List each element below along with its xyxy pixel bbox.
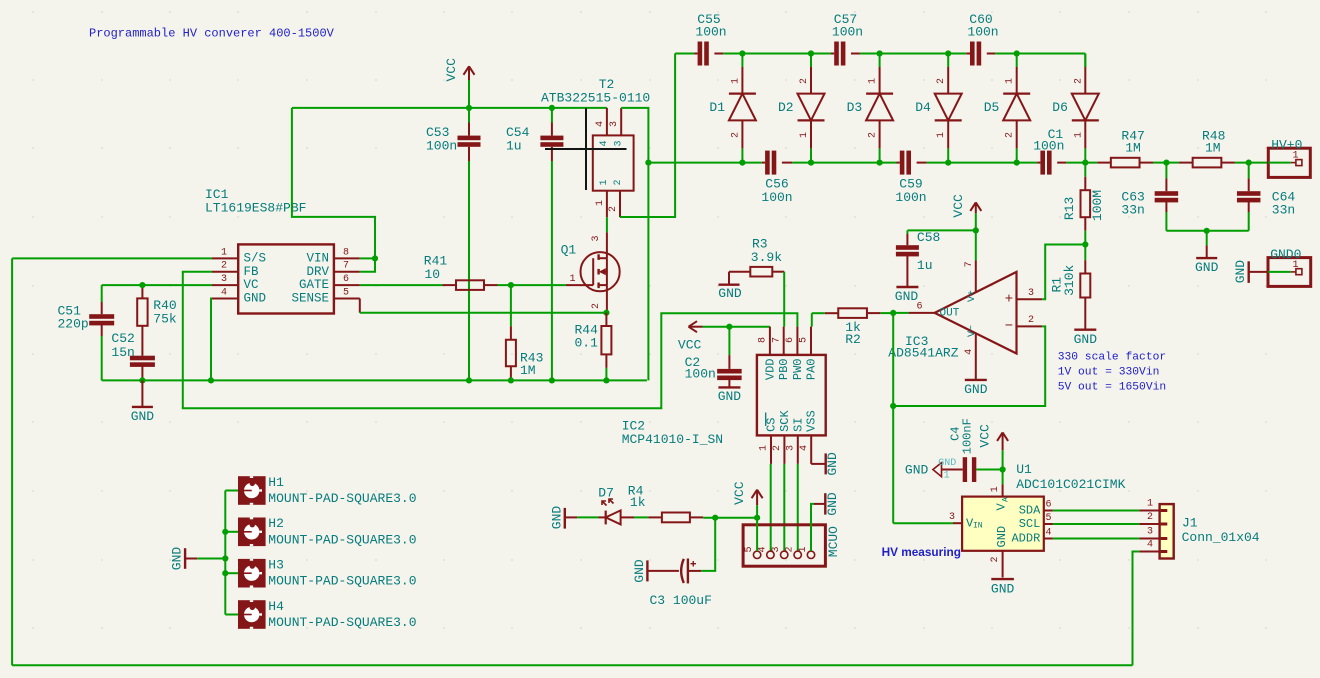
svg-text:3: 3 <box>613 140 624 146</box>
wire bottom rail <box>12 664 1132 666</box>
power VCC at U1 <box>1002 432 1004 450</box>
wire to H2 <box>225 531 238 533</box>
junction VCC R4 <box>754 515 760 521</box>
svg-text:2: 2 <box>1028 315 1034 326</box>
svg-text:2: 2 <box>785 546 796 552</box>
wire HV top rail segments <box>675 53 694 55</box>
ic IC2 bottom pins 1 2 3 4 <box>770 435 772 464</box>
resistor R48 1M <box>1179 162 1193 164</box>
wire R2 to IC2 PA0 <box>811 313 813 326</box>
junction D1 bottom <box>739 160 745 166</box>
svg-text:V: V <box>995 503 1009 511</box>
svg-text:1V out = 330Vin: 1V out = 330Vin <box>1058 366 1160 378</box>
svg-text:ATB322515-0110: ATB322515-0110 <box>541 91 650 106</box>
wire left vertical rail down <box>11 258 13 665</box>
svg-text:Programmable HV converer 400-1: Programmable HV converer 400-1500V <box>89 27 335 41</box>
svg-text:1: 1 <box>944 470 950 481</box>
capacitor C59 100n <box>897 162 900 164</box>
svg-text:4: 4 <box>757 546 768 552</box>
svg-text:2: 2 <box>730 132 741 138</box>
ground at D7 <box>564 508 566 529</box>
capacitor C4 100nF <box>976 469 1002 471</box>
global label GND at C4 <box>933 463 942 477</box>
transformer T2 pin 3 <box>620 108 622 135</box>
svg-text:1M: 1M <box>1205 141 1221 156</box>
ic IC2 CS overline <box>765 413 767 427</box>
svg-text:3: 3 <box>786 445 797 451</box>
svg-text:VIN: VIN <box>306 251 329 265</box>
capacitor C60 100n <box>966 53 970 55</box>
svg-text:3: 3 <box>949 512 955 523</box>
op-amp IC3 AD8541ARZ body <box>935 272 1017 354</box>
wire VIN from op-amp output <box>893 522 953 524</box>
power VCC op-amp <box>975 202 977 213</box>
power VCC at MCUO pin 5 <box>756 490 758 506</box>
capacitor C55 100n <box>695 53 698 55</box>
svg-text:2: 2 <box>608 206 619 212</box>
svg-text:GND: GND <box>718 389 742 404</box>
svg-text:U1: U1 <box>1016 462 1032 477</box>
svg-text:H2: H2 <box>268 516 284 531</box>
svg-text:Conn_01x04: Conn_01x04 <box>1182 530 1260 545</box>
resistor R44 0.1 <box>605 313 607 326</box>
svg-text:H3: H3 <box>268 558 284 573</box>
svg-text:GND: GND <box>825 452 840 476</box>
svg-text:4: 4 <box>799 445 810 451</box>
ground at GND0 <box>1250 271 1269 273</box>
wire HV mid rail segments <box>648 162 762 164</box>
junction VC node <box>139 282 145 288</box>
svg-text:100n: 100n <box>761 190 792 205</box>
diode D1 <box>741 54 743 68</box>
svg-text:HV measuring: HV measuring <box>882 545 961 559</box>
svg-text:GATE: GATE <box>299 278 329 292</box>
svg-text:MOUNT-PAD-SQUARE3.0: MOUNT-PAD-SQUARE3.0 <box>268 615 416 630</box>
svg-text:100n: 100n <box>1033 139 1064 154</box>
svg-text:100n: 100n <box>967 25 998 40</box>
ground below C2 <box>718 386 740 388</box>
mount pad H4 <box>238 600 266 629</box>
svg-text:GND0: GND0 <box>1270 247 1301 262</box>
svg-text:1: 1 <box>798 546 809 552</box>
svg-text:1: 1 <box>221 247 227 258</box>
capacitor C56 100n <box>762 162 765 164</box>
svg-text:−: − <box>1005 319 1013 335</box>
svg-text:CS: CS <box>765 417 779 431</box>
wire T2 pin3 to HV rail and common <box>621 108 648 381</box>
diode D2 <box>810 54 812 68</box>
junction R44 to common rail <box>603 377 609 383</box>
svg-text:3: 3 <box>591 235 602 241</box>
connector GND0 port <box>1268 258 1311 287</box>
wire C63 C64 ground link <box>1166 230 1248 232</box>
svg-text:6: 6 <box>343 274 349 285</box>
wire up to J1 pin4 <box>1133 552 1140 666</box>
svg-text:VCC: VCC <box>444 58 459 82</box>
op-amp IC3 inverting pin 2 <box>1017 325 1043 327</box>
svg-text:4: 4 <box>1045 527 1051 538</box>
resistor R1 310k <box>1084 245 1086 261</box>
junction IC1 GND to common rail <box>208 377 214 383</box>
connector J1 pins 1-4 <box>1139 510 1159 512</box>
diode D3 <box>879 54 881 68</box>
svg-text:SENSE: SENSE <box>291 292 329 306</box>
svg-text:2: 2 <box>772 445 783 451</box>
svg-text:3.9k: 3.9k <box>751 250 782 265</box>
svg-text:SI: SI <box>791 417 805 431</box>
ic IC1 LT1619ES8#PBF body <box>238 244 334 313</box>
svg-text:HV+0: HV+0 <box>1271 138 1302 153</box>
junction D3 bottom <box>877 160 883 166</box>
svg-text:4: 4 <box>221 287 227 298</box>
capacitor C2 100n <box>728 327 730 355</box>
junction D2 top <box>808 50 814 56</box>
ground below U1 <box>991 578 1014 580</box>
svg-text:D1: D1 <box>709 100 725 115</box>
wire VIN DRV to VCC <box>360 257 375 259</box>
svg-text:MCUO: MCUO <box>826 526 841 557</box>
ground at MCUO pin1 <box>814 503 825 505</box>
svg-text:GND: GND <box>905 462 929 477</box>
svg-text:C52: C52 <box>111 331 134 346</box>
ic U1 pin 1 VA <box>1002 485 1004 497</box>
wire D7 to R4 <box>634 516 648 518</box>
svg-text:MCP41010-I_SN: MCP41010-I_SN <box>622 432 723 447</box>
svg-text:C58: C58 <box>917 230 940 245</box>
svg-text:100nF: 100nF <box>960 418 974 454</box>
svg-text:5: 5 <box>799 337 810 343</box>
wire R47 to C63 <box>1153 162 1166 164</box>
resistor R47 1M <box>1097 162 1111 164</box>
svg-text:1: 1 <box>599 179 610 185</box>
svg-text:0.1: 0.1 <box>575 335 599 350</box>
ic IC2 MCP41010 body <box>757 355 826 436</box>
svg-text:GND: GND <box>244 292 267 306</box>
wire VC pin3 <box>102 284 212 286</box>
svg-text:2: 2 <box>936 78 947 84</box>
junction C64 node <box>1246 160 1252 166</box>
junction T2 pin3 at HV rail <box>645 160 651 166</box>
wire H pads bus <box>224 491 226 615</box>
resistor R4 1k <box>648 516 662 518</box>
svg-text:2: 2 <box>221 261 227 272</box>
svg-text:100n: 100n <box>685 367 716 382</box>
svg-text:R40: R40 <box>153 298 176 313</box>
svg-text:J1: J1 <box>1182 515 1198 530</box>
wire output down to measure <box>892 313 894 523</box>
resistor R43 1M <box>510 285 512 326</box>
wire C3 branch down <box>701 518 715 571</box>
svg-text:VSS: VSS <box>805 410 819 432</box>
svg-text:1: 1 <box>759 445 770 451</box>
svg-text:GND: GND <box>1074 332 1098 347</box>
junction D3 top <box>877 50 883 56</box>
svg-text:IN: IN <box>973 522 983 531</box>
wire T2 pin1 to Q1 drain <box>606 217 608 232</box>
connector HV+0 port <box>1268 148 1310 177</box>
resistor R3 3.9k <box>729 271 750 273</box>
svg-text:2: 2 <box>868 132 879 138</box>
svg-text:5: 5 <box>744 546 755 552</box>
junction C3 branch <box>712 515 718 521</box>
wire IC1 GND pin4 down <box>211 299 212 381</box>
svg-text:4: 4 <box>964 349 975 355</box>
wire output node <box>893 312 908 314</box>
svg-text:330 scale factor: 330 scale factor <box>1058 351 1166 363</box>
ic U1 right pins SDA SCL ADDR <box>1044 510 1053 512</box>
svg-text:33n: 33n <box>1272 203 1295 218</box>
svg-text:100n: 100n <box>832 25 863 40</box>
ic U1 ADC101C021CIMK body <box>962 497 1044 551</box>
svg-text:8: 8 <box>343 247 349 258</box>
svg-text:R13: R13 <box>1062 197 1077 220</box>
power VCC arrow left at C2 <box>689 326 703 328</box>
svg-text:2: 2 <box>799 78 810 84</box>
wire GND to D7 <box>577 516 598 518</box>
svg-text:MOUNT-PAD-SQUARE3.0: MOUNT-PAD-SQUARE3.0 <box>268 532 416 547</box>
svg-text:3: 3 <box>1147 526 1153 537</box>
svg-text:8: 8 <box>758 337 769 343</box>
wire SENSE pin5 to Q1 source <box>359 299 361 313</box>
svg-text:S/S: S/S <box>244 251 267 265</box>
wire SDA to J1 <box>1053 510 1140 512</box>
transistor Q1 source pin 2 <box>606 285 608 313</box>
ground below C58 <box>896 286 918 288</box>
wire to H3 <box>225 572 238 574</box>
svg-text:GND: GND <box>549 506 564 530</box>
junction ground link <box>1204 228 1210 234</box>
svg-text:10: 10 <box>425 267 441 282</box>
svg-text:100n: 100n <box>695 25 726 40</box>
resistor R2 1k <box>812 312 825 314</box>
svg-text:4: 4 <box>599 140 610 146</box>
ic IC1 right pins 8-5 VIN DRV GATE SENSE <box>334 257 360 259</box>
svg-text:1: 1 <box>868 78 879 84</box>
svg-text:C3 100uF: C3 100uF <box>650 593 712 608</box>
svg-text:1: 1 <box>1005 78 1016 84</box>
svg-text:R2: R2 <box>845 332 861 347</box>
svg-text:GND: GND <box>938 458 956 469</box>
wire R48 to HV+0 <box>1235 162 1268 164</box>
svg-text:1u: 1u <box>917 258 933 273</box>
svg-text:GND: GND <box>964 382 988 397</box>
capacitor C54 1u <box>551 108 553 123</box>
junction D6 R13 node <box>1082 160 1088 166</box>
svg-text:D2: D2 <box>778 100 794 115</box>
wire VCC horizontal rail <box>292 107 607 109</box>
svg-text:3: 3 <box>1028 288 1034 299</box>
capacitor C63 33n <box>1165 163 1167 179</box>
resistor R13 100M <box>1084 163 1086 177</box>
svg-text:1: 1 <box>595 200 606 206</box>
svg-text:1: 1 <box>1073 132 1084 138</box>
connector J1 Conn_01x04 body <box>1160 504 1174 558</box>
junction C2 <box>726 324 732 330</box>
junction C63 node <box>1163 160 1169 166</box>
svg-text:H1: H1 <box>268 475 284 490</box>
wire to H4 <box>225 614 238 616</box>
svg-text:H4: H4 <box>268 599 284 614</box>
svg-text:3: 3 <box>221 274 227 285</box>
svg-text:DRV: DRV <box>306 265 329 279</box>
svg-text:MOUNT-PAD-SQUARE3.0: MOUNT-PAD-SQUARE3.0 <box>268 574 416 589</box>
wire MCUO pin1 to ground <box>811 504 814 551</box>
svg-text:1k: 1k <box>630 495 646 510</box>
svg-text:SCL: SCL <box>1019 517 1041 531</box>
transformer T2 ATB322515-0110 body <box>593 135 634 190</box>
wire ADDR to J1 <box>1053 538 1140 540</box>
junction D4 bottom <box>945 160 951 166</box>
svg-text:GND: GND <box>825 492 840 516</box>
svg-text:5: 5 <box>343 287 349 298</box>
mount pad H1 <box>238 476 266 505</box>
junction R41 R43 <box>508 282 514 288</box>
transformer T2 pin 2 <box>619 191 621 218</box>
svg-text:4: 4 <box>595 121 606 127</box>
capacitor C58 1u <box>906 230 908 234</box>
connector MCUO pins 5-1 <box>753 551 760 558</box>
capacitor C57 100n <box>831 53 834 55</box>
ic IC2 top pins 8 7 6 5 <box>769 327 771 355</box>
ic U1 pin 3 VIN <box>953 522 962 524</box>
svg-text:1: 1 <box>936 132 947 138</box>
svg-text:1: 1 <box>569 274 575 285</box>
diode D7 LED <box>599 516 606 518</box>
junction C52 to common rail <box>139 377 145 383</box>
wire R3 to IC2 PB0 <box>783 272 785 327</box>
svg-text:100n: 100n <box>426 139 457 154</box>
svg-text:100M: 100M <box>1090 190 1105 221</box>
junction op-amp output <box>890 310 896 316</box>
wire VCC to IC2 VDD <box>703 326 770 328</box>
junction VIN pin8 <box>372 255 378 261</box>
capacitor C51 220p <box>101 285 103 302</box>
connector MCUO body <box>743 525 825 566</box>
svg-text:D4: D4 <box>915 100 931 115</box>
ic IC1 left pins 1-4 S/S FB VC GND <box>212 257 238 259</box>
svg-text:D7: D7 <box>598 485 614 500</box>
junction C54 to common rail <box>549 377 555 383</box>
svg-text:AD8541ARZ: AD8541ARZ <box>888 345 958 360</box>
svg-text:3: 3 <box>609 121 620 127</box>
op-amp IC3 V+ pin 7 <box>975 261 977 292</box>
svg-text:1: 1 <box>799 132 810 138</box>
diode D6 <box>1084 54 1086 68</box>
op-amp IC3 V- pin 4 <box>975 334 977 380</box>
svg-text:GND: GND <box>131 409 155 424</box>
junction D1 top <box>739 50 745 56</box>
svg-text:FB: FB <box>244 265 260 279</box>
svg-text:5: 5 <box>1045 513 1051 524</box>
transistor Q1 body <box>581 252 620 291</box>
svg-text:1M: 1M <box>520 363 536 378</box>
svg-text:A: A <box>1001 497 1010 502</box>
ic U1 pin 2 GND <box>1002 551 1004 578</box>
svg-text:33n: 33n <box>1121 203 1144 218</box>
mount pad H2 <box>238 518 266 547</box>
svg-text:GND: GND <box>632 559 647 583</box>
wire S/S pin1 from left rail <box>12 257 212 259</box>
svg-text:D5: D5 <box>984 100 1000 115</box>
junction D5 bottom <box>1014 160 1020 166</box>
svg-text:2: 2 <box>990 556 1001 562</box>
wire T2 pin2 to C55 <box>620 54 675 218</box>
svg-text:2: 2 <box>613 179 624 185</box>
svg-text:75k: 75k <box>153 312 177 327</box>
ground below R1 <box>1074 329 1096 331</box>
junction C53 to common rail <box>466 377 472 383</box>
svg-text:7: 7 <box>343 261 349 272</box>
svg-text:1: 1 <box>990 486 1001 492</box>
svg-text:1: 1 <box>730 78 741 84</box>
wire GATE pin6 to R41 <box>360 284 443 286</box>
svg-text:310k: 310k <box>1062 265 1077 296</box>
wire +in to divider <box>1042 245 1085 300</box>
capacitor C1 100n <box>1037 162 1040 164</box>
svg-text:GND: GND <box>1195 260 1219 275</box>
op-amp IC3 non-inverting pin 3 <box>1017 298 1043 300</box>
diode D4 <box>947 54 949 68</box>
transformer T2 pin 4 <box>606 108 608 135</box>
transistor Q1 drain pin 3 <box>606 232 608 258</box>
wire C58 to VCC <box>907 229 975 231</box>
junction VCC C58 <box>973 227 979 233</box>
svg-text:2: 2 <box>591 303 602 309</box>
junction VCC at C53 <box>466 105 472 111</box>
svg-text:GND: GND <box>991 582 1015 597</box>
capacitor C53 100n <box>468 108 470 123</box>
capacitor C64 33n <box>1248 163 1250 179</box>
resistor R41 10 <box>443 284 457 286</box>
wire R41 to Q1 gate <box>498 284 566 286</box>
svg-text:GND: GND <box>718 286 742 301</box>
junction D2 bottom <box>808 160 814 166</box>
svg-text:7: 7 <box>964 261 975 267</box>
wire C63 node to R48 <box>1166 162 1179 164</box>
svg-text:5V out = 1650Vin: 5V out = 1650Vin <box>1058 381 1166 393</box>
junction ground tap <box>222 555 228 561</box>
junction H3 <box>222 570 228 576</box>
junction D5 top <box>1014 50 1020 56</box>
svg-text:1: 1 <box>1147 498 1153 509</box>
svg-text:220p: 220p <box>58 316 89 331</box>
ground below op-amp <box>965 379 987 381</box>
svg-text:3: 3 <box>771 546 782 552</box>
svg-text:MOUNT-PAD-SQUARE3.0: MOUNT-PAD-SQUARE3.0 <box>268 491 416 506</box>
svg-text:1u: 1u <box>506 139 522 154</box>
junction VCC C4 <box>1000 466 1006 472</box>
transistor Q1 gate pin 1 <box>566 284 594 286</box>
wire common rail y380 <box>102 379 647 381</box>
svg-text:Q1: Q1 <box>561 243 577 258</box>
mount pad H3 <box>238 559 266 588</box>
ground at IC2 VSS <box>811 463 826 465</box>
wire to H1 <box>225 490 238 492</box>
svg-text:OUT: OUT <box>940 307 960 319</box>
svg-text:SDA: SDA <box>1019 504 1041 518</box>
power VCC top <box>468 66 470 80</box>
svg-text:100n: 100n <box>895 190 926 205</box>
wire IC2 CS SCK SI to MCUO <box>770 464 772 551</box>
resistor R40 75k <box>141 285 143 298</box>
capacitor C52 15n <box>130 356 155 361</box>
svg-text:1M: 1M <box>1125 141 1141 156</box>
ground below C63 C64 <box>1206 231 1208 246</box>
svg-text:GND: GND <box>895 289 919 304</box>
svg-text:+: + <box>1005 291 1013 307</box>
wire SCL to J1 <box>1053 523 1140 525</box>
junction VCC at C54 <box>549 105 555 111</box>
